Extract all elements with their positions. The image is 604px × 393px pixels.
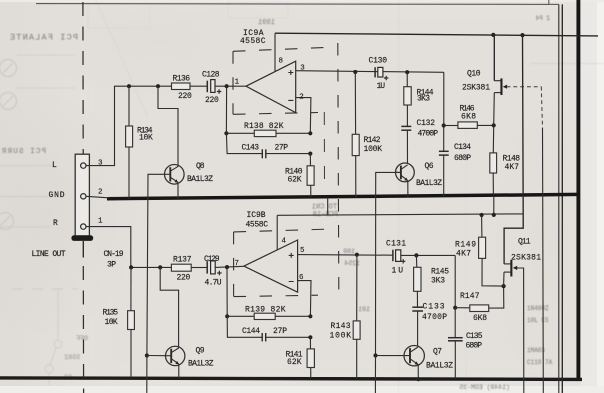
wire IC9A pin2 stub to R138: [296, 98, 311, 134]
capacitor C128 (electrolytic): [207, 80, 221, 94]
resistor R140: [307, 154, 314, 197]
connector pin 2 circle: [81, 194, 86, 199]
node R145 top: [414, 253, 418, 257]
svg-text:Q6: Q6: [425, 162, 434, 171]
svg-text:4558C: 4558C: [240, 37, 266, 46]
svg-text:2: 2: [98, 188, 103, 196]
wire Q6 emitter to GND: [407, 181, 409, 198]
node Q9 base: [145, 353, 149, 357]
node R142 top: [353, 70, 357, 74]
svg-text:1U: 1U: [377, 82, 386, 91]
capacitor C144: [262, 333, 310, 341]
svg-text:R149: R149: [455, 241, 476, 250]
JFET Q10: [494, 35, 507, 126]
svg-text:7: 7: [235, 260, 240, 268]
svg-text:Q8: Q8: [196, 162, 205, 171]
svg-text:C144: C144: [242, 327, 260, 336]
wire C128 to IC9A pin1: [215, 85, 246, 87]
resistor R143: [353, 255, 360, 379]
node R146 right: [492, 123, 496, 127]
svg-text:680P: 680P: [466, 341, 483, 350]
svg-text:C134: C134: [454, 143, 471, 152]
node R147 left: [453, 306, 457, 310]
node pin7: [225, 265, 229, 269]
wire tap to GND bus at x493.8: [493, 196, 495, 215]
svg-text:2SK381: 2SK381: [511, 254, 541, 263]
svg-text:R139 82K: R139 82K: [245, 306, 286, 315]
wire mute line below Q9 base: [146, 356, 148, 393]
node C144 right: [308, 335, 312, 339]
node Q7 base: [373, 353, 377, 357]
node R144 top: [405, 70, 409, 74]
svg-text:Q9: Q9: [196, 347, 205, 356]
svg-text:10K: 10K: [105, 318, 118, 327]
svg-text:R145: R145: [431, 268, 449, 277]
wire IC9B pin4 from net y215: [276, 215, 278, 250]
resistor R135: [128, 267, 135, 378]
svg-text:220: 220: [178, 92, 192, 101]
wire pin3 to top rail: [86, 86, 172, 165]
resistor R137: [171, 264, 191, 271]
svg-text:LINE OUT: LINE OUT: [32, 250, 66, 259]
svg-text:(1440) EOM-35: (1440) EOM-35: [459, 384, 510, 391]
svg-text:R142: R142: [364, 136, 381, 145]
wire down to C143: [226, 133, 261, 153]
svg-text:1U: 1U: [392, 267, 404, 276]
resistor R147: [455, 286, 504, 311]
svg-text:R138 82K: R138 82K: [244, 122, 284, 131]
dashed line right of R140: [323, 112, 325, 186]
node R139 left: [225, 314, 229, 318]
svg-text:IC9B: IC9B: [247, 211, 266, 220]
transistor Q7: [376, 346, 425, 366]
node B (Q8 collector tap): [156, 84, 160, 88]
svg-text:4700P: 4700P: [418, 129, 439, 138]
JFET Q11: [504, 260, 518, 286]
wire Q9 collector: [160, 267, 178, 348]
node rail junction 2: [520, 33, 524, 37]
dashed vertical above connector: [82, 2, 84, 154]
svg-text:100K: 100K: [364, 145, 383, 154]
svg-text:CN-19: CN-19: [104, 250, 124, 259]
svg-text:R: R: [53, 219, 58, 228]
transistor Q8: [165, 165, 185, 185]
node Q9 collector tap: [158, 265, 162, 269]
svg-text:C130: C130: [369, 56, 388, 65]
svg-text:220: 220: [177, 273, 191, 282]
svg-text:R147: R147: [460, 292, 480, 301]
svg-text:4K7: 4K7: [456, 249, 471, 258]
svg-text:100K: 100K: [330, 331, 352, 340]
wire C131 to R145 node: [401, 254, 455, 256]
svg-text:BA1L3Z: BA1L3Z: [187, 175, 213, 184]
svg-text:4558C: 4558C: [246, 220, 269, 229]
node C143 right: [308, 152, 312, 156]
svg-text:2: 2: [299, 93, 304, 101]
dashed vertical below connector: [82, 266, 84, 393]
wire pin5 corner down to R147: [454, 255, 456, 307]
resistor R141: [307, 337, 314, 378]
node y215 junction 2: [492, 213, 496, 217]
node R138 right: [308, 131, 312, 135]
node Q11 gate junction: [502, 284, 506, 288]
svg-text:6: 6: [299, 274, 304, 282]
node A (R134 tap): [127, 84, 131, 88]
wire vertical page line A: [558, 4, 560, 393]
svg-text:2 P4: 2 P4: [535, 15, 550, 22]
svg-text:4700P: 4700P: [422, 313, 447, 322]
wire C129 to IC9B pin7: [215, 266, 244, 267]
svg-text:C128: C128: [202, 71, 220, 80]
connector pin 3 circle: [81, 163, 86, 168]
border frame top thin line: [36, 0, 559, 4]
dashed channel separator line: [338, 43, 339, 290]
svg-text:Q10: Q10: [467, 70, 481, 79]
wire IC9B pin6 stub to R139: [298, 281, 311, 317]
transistor Q9: [166, 346, 185, 365]
svg-text:C132: C132: [417, 119, 436, 128]
wire Q8 base / mute line down to Q9 base: [147, 174, 165, 355]
wire pin2 to GND bus: [86, 196, 110, 198]
node R135 top: [129, 265, 133, 269]
svg-text:27P: 27P: [275, 144, 289, 153]
resistor R146: [444, 122, 494, 128]
wire IC9A pin8 from rail: [274, 33, 276, 71]
wire stub below connector: [82, 241, 84, 258]
svg-text:L: L: [52, 161, 57, 170]
wire rail drop to Q11 drain zigzag: [504, 35, 523, 264]
wire tap to GND bus at x327: [327, 198, 329, 216]
svg-text:3K3: 3K3: [417, 95, 430, 104]
svg-text:8: 8: [279, 57, 284, 65]
node pin1: [225, 84, 229, 88]
svg-text:1991: 1991: [258, 19, 275, 27]
wire pin7 node down to R139: [226, 267, 228, 316]
resistor R144: [404, 72, 411, 126]
svg-text:PCI SURR: PCI SURR: [2, 148, 46, 156]
svg-text:4K7: 4K7: [505, 163, 520, 172]
svg-text:220: 220: [205, 96, 219, 105]
connector CN-19 base bar: [71, 235, 93, 241]
svg-text:C133: C133: [423, 303, 445, 312]
svg-text:Q7: Q7: [433, 348, 442, 357]
wire R137 to C129: [191, 267, 207, 269]
wire IC9A pin3 output: [296, 71, 444, 73]
svg-text:10K: 10K: [139, 134, 153, 143]
svg-text:4.7U: 4.7U: [205, 279, 222, 288]
resistor R138: [226, 130, 310, 136]
svg-text:680P: 680P: [454, 154, 471, 163]
svg-text:C143: C143: [242, 144, 260, 153]
svg-text:TO CN1PCB-18: TO CN1PCB-18: [312, 204, 338, 220]
V+ power rail: [275, 33, 598, 36]
capacitor C130 (electrolytic): [375, 67, 388, 80]
border frame right thick: [576, 0, 580, 380]
bottom channel ink: [128, 215, 524, 393]
dashed IC9A box: [233, 47, 330, 114]
svg-text:27P: 27P: [273, 327, 287, 336]
wire Q7 emitter to bottom bus: [417, 365, 419, 379]
border frame bottom thick: [0, 378, 582, 380]
node R143 top: [355, 253, 359, 257]
op-amp IC9B: [244, 240, 298, 292]
resistor R148: [490, 125, 497, 195]
resistor R145: [414, 255, 421, 307]
wire R136 to C128: [190, 85, 207, 87]
svg-text:PCI FALANTE: PCI FALANTE: [10, 33, 78, 43]
svg-text:1: 1: [235, 79, 240, 87]
GND bus (thick horizontal): [107, 194, 580, 198]
capacitor C135: [448, 308, 463, 379]
svg-text:R136: R136: [173, 75, 191, 84]
capacitor C131 (electrolytic): [393, 250, 406, 264]
svg-text:Q11: Q11: [518, 238, 531, 247]
resistor R142: [352, 72, 359, 198]
capacitor C133: [412, 307, 423, 346]
wire Q8 emitter to GND: [177, 182, 179, 198]
connector CN-19 body: [75, 154, 89, 236]
svg-text:3P: 3P: [107, 261, 116, 270]
dashed IC9B box: [234, 229, 326, 296]
node y215 junction 1: [480, 213, 484, 217]
node R146 left: [442, 123, 446, 127]
resistor R139: [227, 313, 310, 319]
svg-text:5: 5: [300, 247, 305, 255]
resistor R134: [126, 86, 133, 198]
wire pin1 to R-channel input: [86, 227, 171, 268]
wire Q9 base stub: [147, 355, 166, 357]
svg-text:GND: GND: [49, 191, 65, 200]
svg-text:C131: C131: [386, 240, 406, 249]
capacitor C134: [439, 126, 449, 197]
dashed gate line Q10: [507, 87, 544, 393]
svg-text:6K8: 6K8: [461, 112, 476, 121]
capacitor C143: [262, 149, 310, 158]
svg-text:R135: R135: [103, 309, 119, 318]
svg-text:BA1L3Z: BA1L3Z: [426, 362, 453, 371]
svg-text:6K8: 6K8: [473, 314, 487, 323]
wire pin1 node down to R138: [225, 86, 227, 133]
transistor Q6: [396, 163, 415, 182]
svg-text:BA1L3Z: BA1L3Z: [416, 179, 442, 188]
wire IC9B pin5 output: [298, 254, 393, 257]
node R139 right: [308, 314, 312, 318]
capacitor C129 (electrolytic): [207, 261, 221, 275]
svg-text:4: 4: [282, 237, 287, 245]
wire pin3 corner down to R146: [443, 72, 445, 125]
wire down to C144: [227, 316, 262, 337]
svg-text:62K: 62K: [288, 176, 302, 185]
svg-text:R143: R143: [331, 322, 351, 331]
svg-text:BA1L3Z: BA1L3Z: [188, 360, 214, 369]
wire Q11 gate line down: [517, 268, 524, 393]
wire mute line below Q7 base: [374, 356, 376, 393]
svg-text:3K3: 3K3: [431, 276, 445, 285]
svg-text:3: 3: [98, 159, 103, 167]
svg-text:C135: C135: [466, 332, 483, 341]
connector pin 1 circle: [81, 224, 86, 229]
op-amp IC9A: [246, 61, 296, 112]
wire Q6 base / mute line down to Q7 base: [376, 172, 401, 355]
svg-text:1: 1: [98, 218, 103, 226]
resistor R136: [172, 83, 191, 90]
svg-text:62K: 62K: [287, 358, 302, 367]
capacitor C132: [401, 126, 411, 163]
wire Q8 collector: [158, 86, 178, 166]
node rail junction 1: [491, 33, 495, 37]
node R138 left: [224, 131, 228, 135]
wire horizontal net y215 (IC9B pin4 rail): [277, 214, 523, 215]
svg-text:2SK381: 2SK381: [462, 83, 490, 92]
node Q7 emitter on bus: [416, 377, 420, 381]
resistor R149: [479, 215, 504, 286]
svg-text:R137: R137: [173, 256, 192, 265]
wire Q9 emitter to bottom bus: [178, 364, 180, 379]
wire vertical page line B: [561, 4, 563, 393]
svg-text:C129: C129: [204, 255, 220, 264]
svg-text:3: 3: [300, 64, 305, 72]
